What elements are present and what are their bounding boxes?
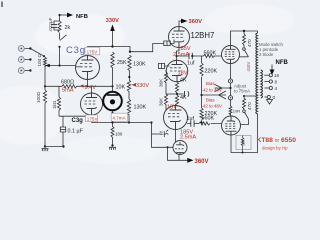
node input 2	[29, 58, 31, 60]
node tube4 grid wire	[167, 146, 169, 148]
NFB feedback line	[271, 65, 273, 70]
tube 12BH7 third	[164, 106, 188, 130]
wire left ground rail	[43, 66, 46, 147]
svg-text:470: 470	[247, 102, 252, 110]
arrow NFB	[67, 13, 73, 18]
svg-text:12BH7: 12BH7	[191, 31, 215, 40]
svg-text:470: 470	[247, 39, 252, 47]
svg-text:36K: 36K	[159, 97, 164, 106]
resistor 10R sense	[241, 136, 244, 153]
svg-text:4K: 4K	[180, 78, 187, 84]
node bias lower	[200, 121, 202, 123]
capacitor grid tube4	[152, 130, 169, 137]
capacitor 1uF lower plates	[191, 120, 194, 126]
svg-text:1kΩ: 1kΩ	[52, 100, 57, 109]
resistor 560K upper	[204, 54, 215, 57]
svg-text:36K: 36K	[159, 78, 164, 87]
svg-text:4.7mA: 4.7mA	[112, 116, 126, 121]
wire KT88u plate	[231, 31, 258, 46]
node KT88u plate	[243, 30, 245, 32]
svg-text:Bias: Bias	[206, 81, 215, 86]
corner mark	[1, 2, 3, 8]
wire C3g upper plate riser	[87, 47, 89, 56]
grid box 12BH7 upper	[164, 41, 170, 46]
node NFB takeoff	[58, 14, 60, 16]
svg-text:360V: 360V	[195, 159, 209, 165]
arrow grid left	[45, 64, 50, 68]
svg-text:130K: 130K	[134, 105, 147, 111]
svg-text:2.4V: 2.4V	[85, 85, 97, 91]
box label 175V	[86, 115, 98, 122]
text labels black values	[61, 25, 217, 137]
node NFB switch contact	[58, 46, 60, 48]
terminal 0 ohm	[267, 95, 270, 98]
node ground 100	[111, 144, 113, 146]
svg-text:Bias: Bias	[206, 98, 215, 103]
resistor 560K lower	[199, 122, 210, 125]
resistor 470 upper	[243, 31, 246, 47]
wire C3g grid	[47, 65, 76, 67]
svg-text:100 Ω: 100 Ω	[37, 54, 42, 67]
tap 8	[265, 81, 270, 83]
tap 16	[264, 74, 269, 76]
resistor 10K	[127, 80, 130, 99]
svg-text:560K: 560K	[204, 51, 217, 57]
svg-text:design by Hp: design by Hp	[262, 146, 288, 151]
svg-text:C3g: C3g	[72, 118, 84, 124]
svg-text:NFB: NFB	[276, 60, 289, 66]
wire KT88u cathode	[230, 64, 232, 117]
capacitor 0.022uF leads	[54, 21, 60, 30]
svg-text:330V: 330V	[136, 83, 149, 89]
arrow 330V mid left	[132, 83, 137, 87]
svg-text:10R: 10R	[242, 139, 246, 146]
svg-text:130K: 130K	[133, 62, 146, 68]
resistor 1k cathode	[57, 97, 60, 116]
tap 0	[265, 96, 268, 98]
terminal 16 ohm	[269, 74, 272, 77]
CCS current source	[103, 92, 122, 111]
capacitor 0.022uF plates	[51, 25, 57, 28]
node bus tube4 grid	[150, 121, 152, 123]
tap labels	[233, 73, 280, 114]
bias crow foot	[219, 91, 227, 99]
svg-text:185V: 185V	[178, 46, 191, 52]
input jack stubs	[25, 49, 31, 71]
svg-text:1uf: 1uf	[187, 116, 195, 122]
resistor 36K upper	[165, 70, 168, 94]
svg-text:5mA: 5mA	[62, 88, 74, 94]
wire bias tap	[202, 94, 219, 96]
svg-text:16: 16	[274, 73, 280, 78]
node 470 lower top	[243, 95, 245, 97]
wire upper tap	[177, 55, 222, 57]
svg-text:10K: 10K	[116, 85, 126, 91]
svg-text:220K: 220K	[205, 69, 218, 75]
capacitor 0.1uF	[60, 127, 65, 132]
svg-text:4K: 4K	[180, 95, 187, 101]
ground 100 resistor	[109, 147, 116, 150]
terminal 4 ohm	[269, 86, 272, 89]
svg-text:-42 to 48V: -42 to 48V	[202, 88, 222, 93]
svg-text:18V: 18V	[178, 71, 188, 77]
wire C3g lower plate link	[92, 86, 113, 93]
box label 175V upper	[85, 47, 100, 55]
switch mode lower	[244, 113, 249, 125]
node CCS bottom bus	[111, 121, 113, 123]
wire to C3g grid	[59, 47, 61, 66]
wire bus lower	[59, 116, 152, 146]
svg-text:360V: 360V	[189, 19, 203, 25]
node input 1	[29, 47, 31, 49]
svg-text:330V: 330V	[106, 18, 119, 24]
wire mid cap stub	[177, 93, 184, 95]
node grid junction	[58, 64, 60, 66]
wire C3g lower cathode	[91, 115, 93, 116]
transformer primary winding	[256, 33, 258, 114]
node sense resistor out	[242, 152, 244, 154]
wire 330V supply arrow	[112, 30, 114, 47]
resistor 220K lower	[200, 108, 203, 120]
svg-text:2.5mA: 2.5mA	[173, 52, 189, 58]
gray note mode switch	[234, 42, 283, 94]
capacitor bypass plates	[185, 91, 189, 97]
KT88 cathode sense box	[236, 136, 251, 150]
node C3g cathode	[86, 85, 88, 87]
wire tube2 cathode	[176, 81, 178, 83]
wire bias riser	[201, 56, 203, 123]
wire tube4 grid	[152, 123, 174, 148]
node plate bus	[129, 51, 131, 53]
svg-text:0.1 µF: 0.1 µF	[68, 129, 84, 135]
tube 12BH7 fourth	[173, 141, 187, 155]
speaker ground triangle	[267, 100, 273, 105]
node ground cap	[62, 145, 64, 147]
resistor 10R cathode	[229, 106, 232, 115]
arrow NFB down right	[270, 70, 275, 76]
svg-text:220K: 220K	[205, 111, 218, 117]
resistor 4K first	[175, 82, 178, 95]
cathode crow foot	[215, 84, 231, 91]
mode switch contact upper	[243, 48, 246, 51]
node bus 130K	[128, 121, 130, 123]
svg-text:.022µF: .022µF	[48, 17, 53, 32]
wire cathode chain	[45, 86, 62, 97]
grid box 12BH7 mid	[159, 63, 167, 68]
svg-text:to 75mA: to 75mA	[234, 89, 250, 94]
input jack 1	[18, 46, 24, 74]
resistor 100ohm input	[44, 57, 47, 66]
svg-text:KT88 or 6550: KT88 or 6550	[257, 137, 297, 144]
svg-text:175V: 175V	[87, 49, 99, 54]
wire C3g upper cathode	[84, 80, 92, 87]
switch mode upper	[243, 51, 249, 57]
arrow 330V up	[110, 25, 115, 32]
wire ground bus	[45, 146, 64, 148]
red voltage labels	[62, 18, 209, 165]
resistor 130K upper	[128, 55, 131, 80]
wire tube4 plate out	[168, 147, 188, 160]
switch NFB lever	[60, 35, 67, 41]
svg-text:415V: 415V	[246, 62, 251, 72]
svg-text:18V: 18V	[167, 105, 177, 111]
arrow 360V top	[181, 19, 188, 24]
tap 4	[265, 87, 270, 89]
resistor 100 to ground	[111, 123, 114, 146]
resistor 4K second	[175, 95, 178, 106]
resistor 680ohm	[62, 85, 84, 88]
svg-text:10R: 10R	[233, 109, 240, 114]
svg-text:C3g: C3g	[66, 45, 86, 56]
node CCS top	[111, 85, 113, 87]
tube 12BH7 upper	[169, 27, 190, 48]
resistor 470 lower	[243, 96, 258, 110]
svg-text:0: 0	[273, 95, 276, 100]
svg-text:175V: 175V	[87, 116, 99, 121]
svg-text:8: 8	[275, 79, 278, 84]
node CCS out	[111, 112, 113, 114]
svg-text:100Ω: 100Ω	[36, 91, 41, 103]
wire 36K link	[166, 93, 177, 95]
node bias mid	[200, 94, 202, 96]
svg-text:4: 4	[275, 86, 278, 91]
node ground rail	[44, 145, 46, 147]
mode switch contact lower	[243, 110, 246, 113]
svg-text:NFB: NFB	[76, 14, 88, 20]
red bias labels	[202, 62, 252, 109]
wire 12BH7 upper stack middle	[177, 48, 180, 61]
wire NFB stub	[60, 14, 68, 16]
arrow 2.4V left	[80, 84, 84, 87]
resistor 2k	[58, 21, 61, 33]
node 130K/10K	[128, 76, 130, 78]
tube C3g lower	[81, 93, 103, 115]
svg-text:680Ω: 680Ω	[61, 80, 74, 86]
capacitor 1uF upper plates	[189, 53, 192, 59]
resistor 130K lower	[127, 99, 130, 123]
wire NFB branch down	[59, 15, 61, 40]
node rail 680	[44, 85, 46, 87]
selector lever	[30, 49, 44, 57]
svg-text:-42 to 48V: -42 to 48V	[202, 104, 222, 109]
svg-text:25K: 25K	[117, 60, 127, 66]
tube KT88 upper	[222, 46, 244, 64]
svg-text:2.5mA: 2.5mA	[180, 135, 196, 141]
wire 12BH7 upper plate to 360V	[179, 21, 181, 27]
resistor 220K upper	[200, 63, 203, 76]
svg-text:100: 100	[115, 132, 123, 137]
resistor 25K	[111, 52, 114, 86]
wire lower tap	[187, 123, 217, 125]
transformer secondary winding	[261, 70, 263, 98]
cathode jack upper	[228, 79, 232, 83]
node selector contact	[43, 55, 45, 57]
cathode jack lower	[228, 96, 232, 100]
wire tube3 to tube4	[175, 130, 177, 143]
wire plate bus to splitter	[88, 44, 172, 52]
wire CCS node	[112, 86, 114, 122]
tube 12BH7 mid	[166, 60, 188, 82]
arrow 360V bottom	[187, 158, 193, 163]
wire KT88l plate	[231, 114, 258, 153]
node input 3	[29, 69, 31, 71]
svg-text:1uf: 1uf	[187, 61, 195, 67]
svg-text:2k: 2k	[65, 25, 71, 31]
node cathode test	[229, 87, 231, 89]
terminal 8 ohm	[269, 80, 272, 83]
node 330V supply	[111, 45, 113, 47]
svg-text:2 triode: 2 triode	[259, 52, 274, 57]
ground input	[41, 149, 48, 152]
resistor 36K lower	[165, 94, 168, 110]
rotated small labels	[36, 17, 252, 146]
tube KT88 lower	[217, 116, 243, 135]
node 1uF out	[191, 55, 193, 57]
node 4K mid	[176, 93, 178, 95]
node SRPP upper out	[175, 55, 177, 57]
tube C3g upper	[76, 56, 100, 80]
output taps circles	[267, 74, 272, 99]
